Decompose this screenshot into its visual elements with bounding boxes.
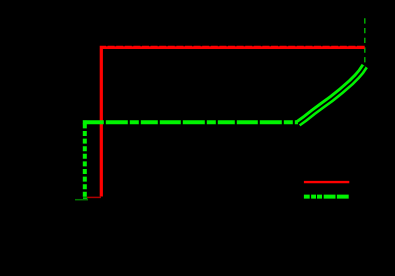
legend red solid line sample	[304, 181, 349, 183]
red solid curve: main step (vertical rise and plateau)	[101, 47, 364, 196]
green dashed curve: clipped steep segment at right border	[364, 18, 366, 63]
green dashed curve: vertical rise at left	[83, 120, 87, 196]
red solid curve: foot segment along x-axis	[87, 196, 101, 198]
green dashed curve: plateau	[83, 120, 298, 124]
legend green dashed line sample	[304, 195, 349, 199]
black dashed overlay notches on red plateau top edge	[106, 45, 364, 47]
black center line over green diagonal	[298, 66, 365, 124]
green curve foot: dim clipped segment along bottom axis	[75, 199, 88, 201]
green dashed curve: diagonal rise	[298, 66, 365, 123]
green curve foot: bright chunk near its rise	[83, 197, 87, 199]
